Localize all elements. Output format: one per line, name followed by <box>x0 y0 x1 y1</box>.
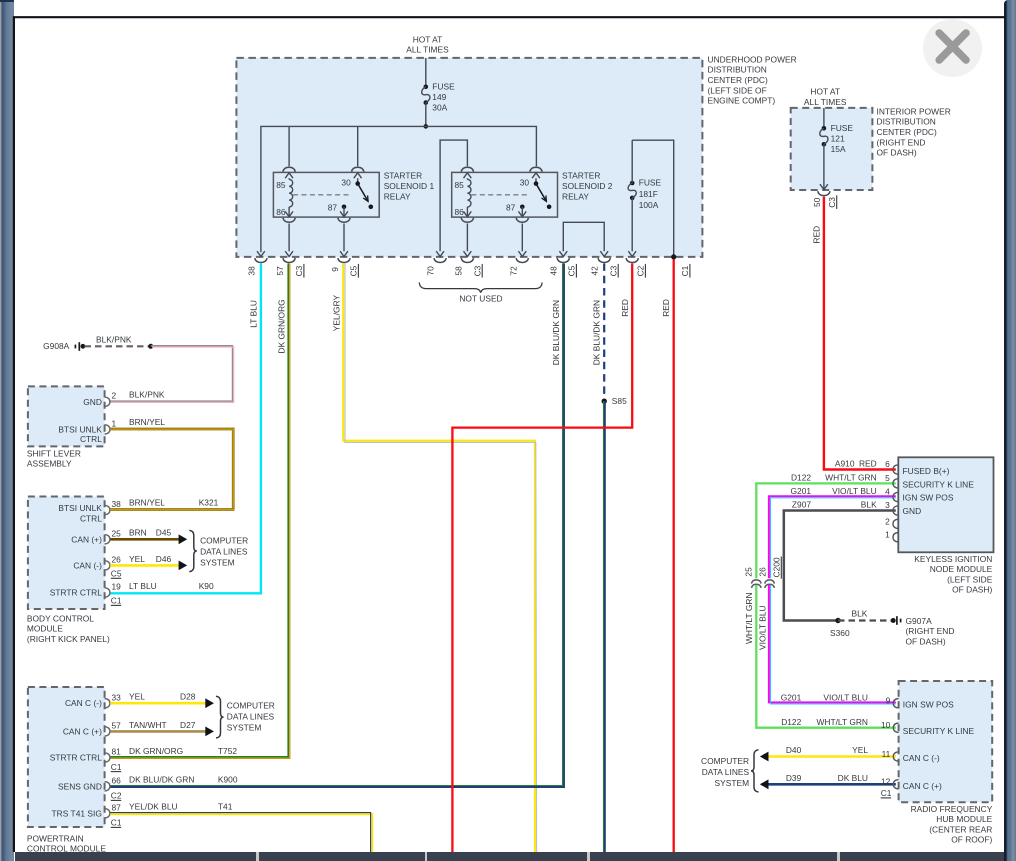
label: DK GRN/ORG T752 <box>129 746 237 756</box>
relay2 terminal 30 entry <box>530 167 542 183</box>
keyless pin 6 <box>893 465 898 474</box>
taskbar separators <box>256 852 259 861</box>
svg-text:DISTRIBUTION: DISTRIBUTION <box>708 65 767 75</box>
bottom taskbar <box>15 852 1005 861</box>
svg-text:11: 11 <box>882 749 891 759</box>
svg-text:C3: C3 <box>294 265 304 276</box>
svg-text:S360: S360 <box>830 628 850 638</box>
svg-text:NODE MODULE: NODE MODULE <box>930 564 993 574</box>
svg-text:CENTER (PDC): CENTER (PDC) <box>708 75 768 85</box>
svg-text:(RIGHT KICK PANEL): (RIGHT KICK PANEL) <box>27 634 110 644</box>
svg-text:(RIGHT END: (RIGHT END <box>906 626 955 636</box>
svg-text:38: 38 <box>247 266 257 276</box>
svg-text:C1: C1 <box>881 788 892 798</box>
svg-text:C1: C1 <box>111 596 122 606</box>
svg-text:K321: K321 <box>199 498 219 508</box>
svg-text:C5: C5 <box>567 265 577 276</box>
svg-text:FUSE: FUSE <box>831 123 854 133</box>
keyless ignition node module box <box>898 457 993 552</box>
relay2 terminal 86 exit <box>461 207 473 222</box>
svg-text:YEL: YEL <box>129 692 145 702</box>
relay1 terminal 30 entry <box>352 167 364 183</box>
wire: TAN/WHT D27 <box>110 730 205 733</box>
wire: DK GRN/ORG pin 57 to PCM STRTR CTRL <box>110 263 290 758</box>
PCM pin 87 TRS T41 SIG <box>52 803 122 819</box>
svg-text:(LEFT SIDE OF: (LEFT SIDE OF <box>708 85 767 95</box>
hub pin 10 <box>893 723 898 732</box>
wire: battery feed to fuse 149 <box>425 58 427 87</box>
svg-text:G907A: G907A <box>906 616 933 626</box>
svg-text:SOLENOID 1: SOLENOID 1 <box>384 181 435 191</box>
BCM pin 25 CAN (+) <box>71 529 121 545</box>
relay1 stationary contact <box>369 205 374 210</box>
svg-text:YEL/DK BLU: YEL/DK BLU <box>129 802 178 812</box>
svg-text:COMPUTER: COMPUTER <box>227 700 275 710</box>
hub pin 9 <box>893 699 898 708</box>
wire: relay2 85 to pin 70 <box>440 140 467 251</box>
svg-text:CAN (+): CAN (+) <box>71 534 102 544</box>
svg-text:C3: C3 <box>608 265 618 276</box>
svg-text:HOT AT: HOT AT <box>413 34 443 44</box>
svg-text:WHT/LT GRN: WHT/LT GRN <box>816 717 868 727</box>
svg-text:BLK: BLK <box>861 500 877 510</box>
label: G201 VIO/LT BLU pin 4 <box>791 486 891 496</box>
ground G907A <box>891 616 901 625</box>
svg-text:ASSEMBLY: ASSEMBLY <box>27 459 72 469</box>
body control module box <box>28 497 105 610</box>
wire: BLK/PNK to shift lever GND <box>110 346 234 403</box>
relay2 terminal labels <box>455 178 530 217</box>
svg-text:D122: D122 <box>781 717 801 727</box>
label: keyless module caption <box>914 554 992 595</box>
svg-text:25: 25 <box>744 567 754 577</box>
relay2 switch contact 30 <box>534 181 539 186</box>
relay2 stationary contact <box>547 205 552 210</box>
brace: BCM computer data lines <box>189 530 197 571</box>
svg-text:100A: 100A <box>639 200 659 210</box>
keyless pin 3 <box>893 506 898 515</box>
svg-text:CENTER (PDC): CENTER (PDC) <box>877 127 937 137</box>
label: YEL D46 <box>129 554 172 564</box>
PCM pin 66 SENS GND <box>58 776 121 792</box>
svg-text:DK BLU/DK GRN: DK BLU/DK GRN <box>129 775 194 785</box>
svg-text:D40: D40 <box>786 745 802 755</box>
svg-text:30: 30 <box>341 178 351 188</box>
svg-text:TRS T41 SIG: TRS T41 SIG <box>52 808 102 818</box>
pin labels 50 C3 <box>812 195 837 209</box>
label: STARTER SOLENOID 2 RELAY <box>562 171 613 202</box>
relay2 switch blade <box>536 184 546 202</box>
pin 48 connector <box>557 251 569 262</box>
svg-text:YEL: YEL <box>852 745 868 755</box>
label: FUSE 181F 100A <box>639 178 662 210</box>
svg-text:BRN/YEL: BRN/YEL <box>129 417 165 427</box>
svg-text:57: 57 <box>275 266 285 276</box>
svg-text:C1: C1 <box>680 265 690 276</box>
label: C1 connector (PCM 81) <box>111 762 122 772</box>
svg-text:BTSI UNLK: BTSI UNLK <box>58 503 102 513</box>
svg-text:HOT AT: HOT AT <box>810 87 840 97</box>
svg-text:K90: K90 <box>199 581 214 591</box>
svg-text:ENGINE COMPT): ENGINE COMPT) <box>708 96 776 106</box>
connector C200 on VIO/LT BLU <box>765 580 775 588</box>
svg-text:181F: 181F <box>639 189 658 199</box>
wire: relay1 coil feed <box>288 126 290 166</box>
NOT USED brace <box>419 283 542 293</box>
svg-text:RED: RED <box>812 226 822 244</box>
svg-text:72: 72 <box>509 266 519 276</box>
wire: VIO/LT BLU G201 (ign sw pos) <box>769 496 896 578</box>
svg-text:YEL/GRY: YEL/GRY <box>331 295 341 332</box>
wire: relay1 contact 30 feed <box>357 126 359 166</box>
relay1 terminal labels <box>276 178 351 217</box>
svg-text:4: 4 <box>885 486 890 496</box>
svg-text:87: 87 <box>112 803 122 813</box>
svg-text:OF DASH): OF DASH) <box>952 585 992 595</box>
wire: WHT/LT GRN to hub pin 10 <box>756 585 896 728</box>
svg-text:38: 38 <box>112 499 122 509</box>
svg-text:DK BLU/DK GRN: DK BLU/DK GRN <box>551 300 561 365</box>
BCM pin 19 STRTR CTRL <box>50 582 121 598</box>
arrow: TAN/WHT to data lines <box>205 727 214 737</box>
svg-text:DK GRN/ORG: DK GRN/ORG <box>129 746 183 756</box>
svg-text:FUSE: FUSE <box>432 82 455 92</box>
svg-text:IGN SW POS: IGN SW POS <box>903 493 954 503</box>
label: keyless internal pin names <box>903 466 975 516</box>
svg-text:D28: D28 <box>180 692 196 702</box>
svg-text:FUSE: FUSE <box>639 178 662 188</box>
svg-text:26: 26 <box>112 555 122 565</box>
svg-text:87: 87 <box>328 203 338 213</box>
svg-text:GND: GND <box>83 397 102 407</box>
svg-text:VIO/LT BLU: VIO/LT BLU <box>832 486 877 496</box>
svg-text:CAN C (-): CAN C (-) <box>65 698 102 708</box>
wire: BRN D45 <box>110 538 179 541</box>
relay2 coil <box>467 179 471 207</box>
wire: VIO/LT BLU to hub pin 9 <box>769 585 896 704</box>
label: pins 25 26 C200 <box>744 557 782 579</box>
label: G907A (RIGHT END OF DASH) <box>906 616 955 647</box>
brace: PCM computer data lines <box>216 696 224 738</box>
svg-text:D46: D46 <box>156 554 172 564</box>
label: C1 connector (PCM 87) <box>111 818 122 828</box>
svg-text:BRN: BRN <box>129 528 147 538</box>
BCM pin 26 CAN (-) <box>73 555 121 571</box>
svg-text:C5: C5 <box>111 569 122 579</box>
keyless pin 5 <box>893 479 898 488</box>
label: SHIFT LEVER ASSEMBLY <box>27 448 81 468</box>
svg-text:SYSTEM: SYSTEM <box>227 722 262 732</box>
svg-text:121: 121 <box>831 134 845 144</box>
svg-text:33: 33 <box>112 692 122 702</box>
label: YEL D28 <box>129 692 196 702</box>
svg-text:SECURITY K LINE: SECURITY K LINE <box>903 479 975 489</box>
svg-text:RED: RED <box>620 299 630 317</box>
fuse 121 <box>820 126 828 190</box>
relay2 internal dashed link <box>471 194 527 196</box>
svg-text:149: 149 <box>432 92 446 102</box>
svg-text:SOLENOID 2: SOLENOID 2 <box>562 181 613 191</box>
svg-text:48: 48 <box>549 266 559 276</box>
PCM pin 81 STRTR CTRL <box>50 747 121 763</box>
label: COMPUTER DATA LINES SYSTEM (PCM) <box>227 700 275 732</box>
svg-text:T752: T752 <box>218 746 237 756</box>
relay1 switch blade <box>358 184 368 202</box>
svg-text:COMPUTER: COMPUTER <box>701 756 749 766</box>
hub pin 12 <box>893 780 898 789</box>
label: underhood PDC caption <box>708 54 797 105</box>
svg-text:HUB MODULE: HUB MODULE <box>936 814 992 824</box>
svg-text:A910: A910 <box>835 459 855 469</box>
arrow: YEL D28 to data lines <box>205 698 214 708</box>
label: hub internal pin names <box>903 700 975 791</box>
PCM pin 33 CAN C (-) <box>65 692 121 708</box>
svg-text:BLK: BLK <box>852 608 868 618</box>
shift lever pin 2 GND <box>83 391 116 407</box>
svg-text:MODULE: MODULE <box>27 624 63 634</box>
svg-text:C200: C200 <box>772 557 782 577</box>
svg-text:SENS GND: SENS GND <box>58 781 102 791</box>
svg-text:CAN C (+): CAN C (+) <box>63 726 102 736</box>
svg-text:C1: C1 <box>111 762 122 772</box>
svg-text:VIO/LT BLU: VIO/LT BLU <box>758 605 768 650</box>
svg-text:STARTER: STARTER <box>384 171 422 181</box>
svg-text:57: 57 <box>112 721 122 731</box>
page top border line <box>13 16 1005 18</box>
svg-text:KEYLESS IGNITION: KEYLESS IGNITION <box>914 554 992 564</box>
label: BODY CONTROL MODULE caption <box>27 613 110 644</box>
svg-text:C1: C1 <box>111 818 122 828</box>
wire: WHT/LT GRN D122 (security K line) <box>756 483 896 578</box>
fuse 149 <box>422 85 430 127</box>
svg-text:D39: D39 <box>786 773 802 783</box>
wire: relay1 86 to pin 57 <box>288 224 290 252</box>
svg-text:OF ROOF): OF ROOF) <box>951 835 992 845</box>
svg-text:85: 85 <box>455 180 465 190</box>
svg-text:15A: 15A <box>831 144 846 154</box>
keyless pin 4 <box>893 492 898 501</box>
svg-text:TAN/WHT: TAN/WHT <box>129 720 167 730</box>
svg-text:RED: RED <box>859 459 877 469</box>
svg-text:CTRL: CTRL <box>80 514 102 524</box>
svg-text:CTRL: CTRL <box>80 434 102 444</box>
svg-text:DISTRIBUTION: DISTRIBUTION <box>877 117 936 127</box>
svg-text:BRN/YEL: BRN/YEL <box>129 498 165 508</box>
svg-text:DK BLU: DK BLU <box>838 773 868 783</box>
shift lever assembly box <box>28 386 105 446</box>
svg-text:CAN C (-): CAN C (-) <box>903 753 940 763</box>
brace: hub computer data lines <box>751 750 759 792</box>
arrow: BRN to data lines <box>179 534 188 544</box>
pin C2 connector <box>626 251 638 262</box>
shift lever pin 1 BTSI <box>58 418 116 444</box>
pin 50 connector (interior PDC) <box>818 184 830 195</box>
svg-text:STARTER: STARTER <box>562 171 600 181</box>
left window border bar <box>0 0 14 861</box>
svg-text:SYSTEM: SYSTEM <box>200 557 235 567</box>
arrow: YEL D40 to data lines <box>760 752 769 762</box>
wire: RED C1 feed <box>673 259 675 852</box>
svg-text:CAN (-): CAN (-) <box>73 560 102 570</box>
underhood PDC box <box>236 58 702 257</box>
svg-text:87: 87 <box>506 203 516 213</box>
label: C1 connector (hub) <box>881 788 892 798</box>
svg-text:(CENTER REAR: (CENTER REAR <box>929 824 992 834</box>
PCM pin 57 CAN C (+) <box>63 721 121 737</box>
node: C1 junction on PDC border <box>671 254 676 259</box>
wire: sensor ground below S85 <box>604 401 605 852</box>
wire: BRN/YEL K321 to BCM <box>110 508 234 511</box>
wire: BRN/YEL shift lever to K321 <box>110 429 233 510</box>
svg-text:VIO/LT BLU: VIO/LT BLU <box>823 693 868 703</box>
svg-text:81: 81 <box>112 747 122 757</box>
relay2 terminal 87 <box>516 205 528 223</box>
wire: DK BLU/DK GRN pin 42 dashed to S85 <box>603 263 605 401</box>
svg-text:K900: K900 <box>218 775 238 785</box>
label: BRN D45 <box>129 528 172 538</box>
node: BLK/PNK junction <box>148 344 153 349</box>
svg-text:GND: GND <box>903 506 922 516</box>
label: Z907 BLK pin 3 <box>792 500 890 510</box>
svg-text:WHT/LT GRN: WHT/LT GRN <box>744 592 754 644</box>
interior PDC box <box>791 108 873 190</box>
svg-text:26: 26 <box>757 567 767 577</box>
arrow: YEL to data lines <box>179 561 188 571</box>
label: FUSE 121 15A <box>831 123 854 154</box>
svg-text:LT BLU: LT BLU <box>129 581 157 591</box>
pin 58 connector <box>461 251 473 262</box>
label: LT BLU K90 <box>129 581 214 591</box>
wire: relay2 87 to pin 72 <box>521 224 523 252</box>
svg-text:1: 1 <box>112 418 117 428</box>
label: D122 WHT/LT GRN pin 5 <box>791 473 890 483</box>
label: G201 VIO/LT BLU pin 9 (hub) <box>781 693 891 706</box>
label: BRN/YEL K321 <box>129 498 219 508</box>
wire: BLK Z907 ground to G907A <box>784 511 896 621</box>
svg-text:G908A: G908A <box>43 341 70 351</box>
label: DK BLU/DK GRN K900 <box>129 775 238 785</box>
svg-text:STRTR CTRL: STRTR CTRL <box>50 588 102 598</box>
label: HOT AT ALL TIMES (interior) <box>804 87 847 107</box>
svg-text:25: 25 <box>112 529 122 539</box>
wire: LT BLU pin 38 to BCM STRTR CTRL <box>110 263 261 593</box>
svg-text:RELAY: RELAY <box>384 191 411 201</box>
wire: relay1 87 to pin 9 <box>343 224 345 252</box>
svg-text:YEL: YEL <box>129 554 145 564</box>
svg-text:DK BLU/DK GRN: DK BLU/DK GRN <box>592 300 602 365</box>
page left border line <box>13 16 15 852</box>
svg-text:G201: G201 <box>781 693 802 703</box>
svg-text:STRTR CTRL: STRTR CTRL <box>50 753 102 763</box>
arrow: DK BLU D39 to data lines <box>760 779 769 789</box>
svg-text:DATA LINES: DATA LINES <box>227 711 275 721</box>
relay2 terminal 85 entry <box>461 167 473 179</box>
svg-text:66: 66 <box>112 776 122 786</box>
label: C2 connector (PCM 66) <box>111 791 122 801</box>
svg-text:DK GRN/ORG: DK GRN/ORG <box>276 299 286 353</box>
close button <box>923 19 982 77</box>
svg-text:UNDERHOOD POWER: UNDERHOOD POWER <box>708 54 797 64</box>
svg-text:12: 12 <box>881 777 891 787</box>
svg-text:C3: C3 <box>472 265 482 276</box>
svg-text:NOT USED: NOT USED <box>459 294 502 304</box>
wire: bridge pins 48 and 42 inside PDC <box>563 222 604 251</box>
BCM pin 38 BTSI UNLK CTRL <box>58 499 121 523</box>
splice S85 <box>602 399 607 404</box>
svg-text:D45: D45 <box>156 528 172 538</box>
svg-text:RED: RED <box>661 299 671 317</box>
svg-text:1: 1 <box>885 530 890 540</box>
wire: RED A910 to keyless module <box>824 197 896 470</box>
svg-text:2: 2 <box>112 391 117 401</box>
relay starter solenoid 1 box <box>273 172 379 217</box>
wire: DK BLU D39 <box>762 783 896 786</box>
pin 42 connector <box>598 251 610 262</box>
svg-text:10: 10 <box>881 720 891 730</box>
svg-text:30: 30 <box>520 178 530 188</box>
svg-text:ALL TIMES: ALL TIMES <box>406 45 449 55</box>
label: D39 DK BLU pin 12 <box>786 773 891 787</box>
pin 9 connector <box>338 251 350 262</box>
svg-text:85: 85 <box>276 180 286 190</box>
wire: B+ bus from fuse 149 <box>261 126 537 252</box>
svg-text:BODY CONTROL: BODY CONTROL <box>27 613 94 623</box>
relay1 terminal 86 exit <box>283 207 295 222</box>
svg-text:RADIO FREQUENCY: RADIO FREQUENCY <box>911 804 993 814</box>
connector id labels below PDC <box>294 264 690 278</box>
connector C200 on WHT/LT GRN <box>752 580 762 588</box>
svg-text:9: 9 <box>886 696 891 706</box>
svg-text:50: 50 <box>812 197 822 207</box>
label: D122 WHT/LT GRN pin 10 (hub) <box>781 717 890 730</box>
fuse 181F <box>628 140 636 251</box>
svg-text:DATA LINES: DATA LINES <box>702 767 750 777</box>
svg-text:58: 58 <box>454 266 464 276</box>
splice S360 <box>835 618 840 623</box>
wire: feed to fuse 121 <box>823 108 825 128</box>
radio frequency hub module box <box>899 681 993 802</box>
label: YEL/DK BLU T41 <box>129 802 233 812</box>
pin 70 connector <box>434 251 446 262</box>
label: C5 connector (BCM) <box>111 569 122 579</box>
wire: YEL D46 <box>110 564 179 567</box>
label: FUSE 149 30A <box>432 82 455 113</box>
label: radio frequency hub module caption <box>911 804 993 845</box>
label: D40 YEL pin 11 <box>786 745 891 759</box>
label: C1 connector (BCM) <box>111 596 122 606</box>
svg-text:LT BLU: LT BLU <box>249 300 259 328</box>
wire: relay2 86 to pin 58 <box>466 224 468 252</box>
wire: YEL/GRY pin 9 <box>343 263 536 852</box>
wire: fuse 181F feed from C1 <box>632 140 674 257</box>
svg-text:RELAY: RELAY <box>562 191 589 201</box>
pin 72 connector <box>516 251 528 262</box>
relay starter solenoid 2 box <box>452 172 558 217</box>
svg-text:9: 9 <box>330 267 340 272</box>
wire: YEL D28 <box>110 702 205 705</box>
svg-text:SYSTEM: SYSTEM <box>715 778 750 788</box>
svg-text:42: 42 <box>589 266 599 276</box>
svg-text:(RIGHT END: (RIGHT END <box>877 137 926 147</box>
relay1 switch contact 30 <box>355 181 360 186</box>
svg-text:70: 70 <box>425 266 435 276</box>
svg-text:C2: C2 <box>636 265 646 276</box>
svg-text:C2: C2 <box>111 791 122 801</box>
label: STARTER SOLENOID 1 RELAY <box>384 171 435 202</box>
svg-text:DATA LINES: DATA LINES <box>200 546 248 556</box>
svg-text:SHIFT LEVER: SHIFT LEVER <box>27 448 81 458</box>
keyless pin 2 <box>885 516 898 528</box>
